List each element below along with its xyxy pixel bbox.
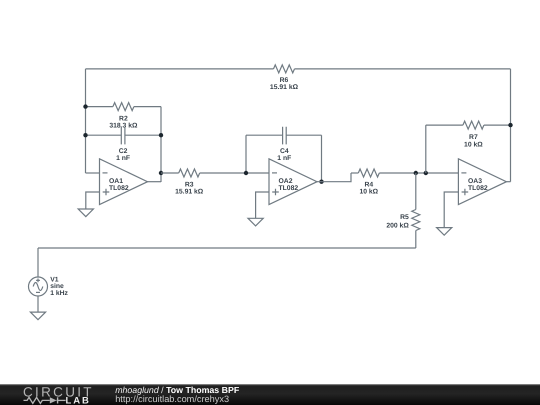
resistor R7: [463, 121, 484, 129]
wire: OA1 output stub: [148, 181, 162, 183]
wire: right rail from top corner down to OA3 output: [510, 69, 512, 182]
wire: OA2 non-inverting input to ground: [256, 192, 269, 218]
wire: R2 row from left rail to right feedback rail: [86, 106, 162, 108]
svg-text:C4: C4: [280, 148, 289, 155]
svg-text:R2: R2: [119, 115, 128, 122]
junction dot: R7 feedback branch node: [424, 171, 428, 175]
wire: OA3 output stub: [506, 181, 510, 183]
wire: R7 feedback branch riser: [425, 125, 427, 173]
svg-text:10 kΩ: 10 kΩ: [464, 141, 483, 148]
svg-text:LAB: LAB: [66, 395, 91, 405]
wire: R7 row: [426, 124, 511, 126]
wire: V1 top lead: [37, 248, 39, 277]
op-amp OA3: [458, 159, 506, 205]
svg-text:10 kΩ: 10 kΩ: [359, 188, 378, 195]
wire: R3 row from OA1 output node to OA2 inverting input: [161, 172, 269, 174]
wire: V1 bottom lead to ground: [37, 296, 39, 312]
wire: R4 row lead-in: [351, 172, 358, 174]
junction dot: R4/R5 node: [414, 171, 418, 175]
resistor R6: [274, 65, 295, 73]
resistor R3: [179, 169, 200, 177]
logo resistor glyph: [24, 397, 50, 403]
wire: R4 row to OA3 inverting input: [379, 172, 458, 174]
junction dot: C4 left / OA2 inverting input: [244, 171, 248, 175]
wire: R5 bottom lead to bottom net: [415, 231, 417, 249]
wire: C4 feedback loop left edge: [245, 135, 247, 173]
svg-text:15.91 kΩ: 15.91 kΩ: [270, 84, 299, 91]
svg-text:TL082: TL082: [279, 185, 299, 192]
junction dot: left rail / R2: [83, 104, 87, 108]
ground: OA3: [437, 228, 452, 236]
resistor R5: [412, 210, 420, 231]
svg-text:1 kHz: 1 kHz: [50, 290, 68, 297]
op-amp OA2: [269, 159, 317, 205]
op-amp OA1: [100, 159, 148, 205]
resistor R4: [358, 169, 379, 177]
logo diode glyph: [50, 397, 57, 403]
voltage source V1: [29, 277, 48, 296]
svg-text:R5: R5: [400, 214, 409, 221]
wire: left rail from top corner down to OA1 inverting input: [85, 69, 87, 173]
svg-text:TL082: TL082: [468, 185, 488, 192]
wire: OA3 non-inverting input to ground: [444, 192, 458, 228]
resistor R2: [113, 103, 134, 111]
ground: OA2: [248, 218, 263, 226]
svg-text:http://circuitlab.com/crehyx3: http://circuitlab.com/crehyx3: [115, 394, 229, 404]
wire: C4 feedback loop right edge down to OA2 output: [321, 135, 323, 182]
wire: OA2 output stub to R4 riser: [317, 173, 351, 182]
wire: R5 top lead: [415, 173, 417, 210]
wire: top net from left rail to right rail (R6 row): [86, 68, 511, 70]
wire: OA1 feedback right rail from R2 row down to OA1 output: [160, 107, 162, 182]
capacitor C4: [283, 127, 287, 145]
junction dot: R7 / right rail: [508, 123, 512, 127]
svg-text:TL082: TL082: [109, 185, 129, 192]
svg-text:318.3 kΩ: 318.3 kΩ: [109, 123, 138, 130]
capacitor C2: [121, 127, 125, 145]
junction dot: left rail / C2: [83, 133, 87, 137]
svg-text:R7: R7: [469, 134, 478, 141]
svg-text:1 nF: 1 nF: [116, 155, 130, 162]
wire: OA1 inverting input stub: [86, 172, 100, 174]
svg-text:1 nF: 1 nF: [277, 155, 291, 162]
wire: C4 row: [246, 134, 322, 136]
wire: bottom net from V1 to R5: [38, 247, 416, 249]
svg-text:15.91 kΩ: 15.91 kΩ: [175, 188, 204, 195]
svg-text:200 kΩ: 200 kΩ: [386, 222, 409, 229]
ground: V1: [30, 312, 45, 320]
wire: C2 row from left rail to right feedback rail: [86, 134, 162, 136]
junction dot: C4 right / OA2 output: [319, 180, 323, 184]
junction dot: feedback rail / C2: [159, 133, 163, 137]
junction dot: feedback rail / R3 row: [159, 171, 163, 175]
ground: OA1: [78, 209, 93, 217]
wire: OA1 non-inverting input to ground: [86, 192, 100, 209]
footer bar: [0, 384, 540, 405]
